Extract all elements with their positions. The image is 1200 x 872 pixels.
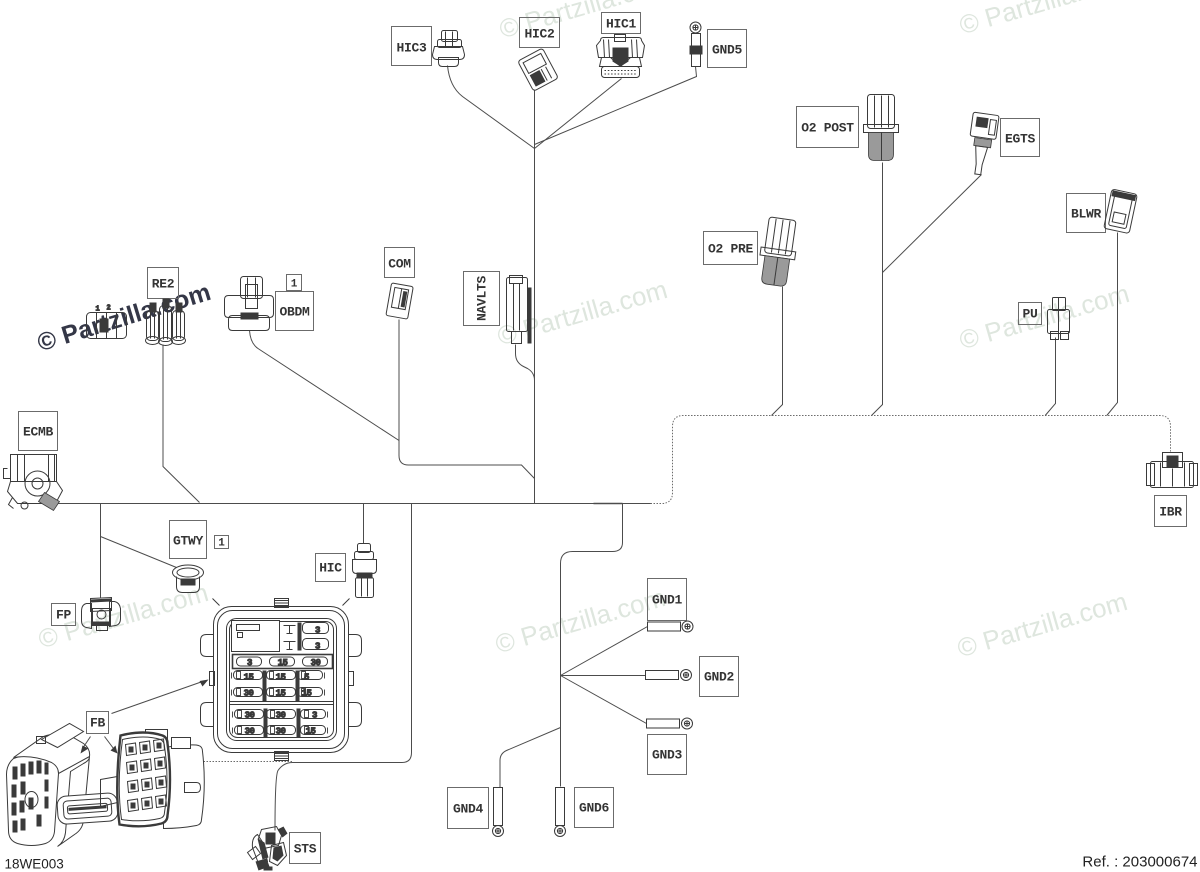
watermark right (956, 278, 1133, 355)
svg-text:OBDM: OBDM (279, 305, 310, 320)
main bus wire left (56, 503, 651, 505)
label IBR (1155, 496, 1187, 527)
watermark center (494, 274, 671, 351)
wire NAVLTS (516, 345, 535, 381)
svg-text:GND5: GND5 (712, 43, 743, 58)
wire HIC3 (448, 66, 535, 149)
watermark bottom-right (954, 586, 1131, 663)
svg-text:PU: PU (1022, 307, 1037, 322)
svg-text:15: 15 (244, 673, 254, 683)
svg-text:GND6: GND6 (579, 801, 610, 816)
watermark bottom-center (492, 582, 669, 659)
label O2 PRE (704, 232, 758, 265)
svg-text:NAVLTS: NAVLTS (475, 276, 490, 322)
label GND6 (575, 788, 614, 828)
label HIC3 (392, 27, 432, 66)
fuse cluster top right (284, 623, 329, 652)
wire COM (399, 320, 535, 479)
terminal GND5 (690, 22, 703, 67)
connector HIC2 (518, 48, 559, 91)
FB arrows (81, 680, 209, 754)
svg-text:HIC1: HIC1 (606, 17, 637, 32)
svg-text:15: 15 (276, 673, 286, 683)
svg-text:1: 1 (96, 306, 100, 314)
label ECMB (19, 412, 58, 451)
watermark top-center (496, 0, 673, 44)
wire GND2 fan (561, 675, 646, 677)
label COM (385, 248, 415, 278)
label GND2 (700, 657, 739, 697)
watermark top-right (956, 0, 1133, 40)
terminal GND6 (555, 788, 566, 837)
wire O2 POST (872, 163, 883, 416)
svg-text:GND2: GND2 (704, 670, 735, 685)
connector COM (386, 283, 413, 319)
wire HIC1 (535, 79, 622, 149)
label FB (87, 712, 109, 734)
terminal GND4 (493, 788, 504, 837)
svg-text:15: 15 (276, 689, 286, 699)
svg-text:15: 15 (302, 689, 312, 699)
FB connector left circle detail (25, 792, 38, 808)
connector O2 POST (864, 95, 899, 161)
svg-text:2: 2 (107, 305, 111, 313)
label HIC (316, 554, 346, 582)
fuse box ears (201, 599, 362, 727)
terminal GND3 (647, 718, 693, 729)
label GTWY (170, 521, 207, 559)
svg-text:30: 30 (276, 711, 286, 721)
label 1 (OBDM) (287, 275, 302, 291)
connector HIC (353, 544, 377, 598)
label HIC2 (520, 18, 560, 48)
fuse clips (232, 672, 328, 734)
fuse section 2 (230, 671, 334, 705)
svg-text:GND3: GND3 (652, 748, 683, 763)
svg-text:FB: FB (90, 716, 106, 731)
wire EGTS (883, 175, 982, 273)
svg-text:30: 30 (311, 658, 321, 668)
svg-text:1: 1 (218, 538, 225, 550)
svg-text:© Partzilla.com: © Partzilla.com (34, 278, 214, 357)
FB connector left slot grid (12, 761, 49, 833)
svg-text:3: 3 (247, 658, 252, 668)
svg-text:30: 30 (276, 727, 286, 737)
fuse band row1 (233, 655, 333, 669)
svg-text:IBR: IBR (1159, 505, 1182, 520)
fuse box top bump (275, 599, 289, 608)
connector HIC3 (433, 31, 465, 67)
svg-text:STS: STS (294, 842, 317, 857)
label RE2 (148, 268, 179, 299)
svg-text:HIC2: HIC2 (524, 27, 555, 42)
connector EGTS (965, 112, 999, 176)
svg-text:3: 3 (315, 626, 320, 636)
terminal GND1 (648, 621, 694, 632)
wire GND5 (535, 67, 697, 145)
fuse box outer (214, 607, 349, 753)
wire FB horizontal (201, 761, 293, 763)
connector OBDM (225, 277, 274, 331)
svg-text:3: 3 (312, 711, 317, 721)
watermark bottom-left (35, 577, 212, 654)
svg-text:HIC3: HIC3 (396, 41, 427, 56)
FB connector right (117, 730, 204, 829)
svg-text:15: 15 (278, 658, 288, 668)
connector ECMB (4, 455, 63, 511)
label GND4 (448, 788, 489, 829)
label STS (290, 833, 321, 864)
svg-text:GTWY: GTWY (173, 534, 204, 549)
wire GND4 branch (500, 728, 561, 788)
connector FP (82, 598, 121, 631)
connector GTWY (173, 565, 204, 593)
connector HIC1 (597, 35, 645, 78)
label GND3 (648, 735, 687, 775)
fuse section 3 (235, 709, 326, 738)
FB connector left (7, 724, 90, 847)
svg-text:RE2: RE2 (152, 277, 175, 292)
wire GTWY branch (101, 537, 177, 568)
svg-text:HIC: HIC (319, 561, 342, 576)
svg-text:© Partzilla.com: © Partzilla.com (956, 0, 1133, 40)
wire OBDM (250, 331, 400, 441)
svg-text:© Partzilla.com: © Partzilla.com (494, 274, 671, 351)
connector RE2 (146, 299, 186, 346)
label GND1 (648, 579, 687, 621)
label O2 POST (797, 107, 859, 148)
connector RE2-left with pins (87, 305, 127, 339)
label PU (1019, 303, 1042, 325)
svg-text:GND1: GND1 (652, 593, 683, 608)
wire PU (1045, 338, 1055, 416)
svg-text:COM: COM (388, 257, 411, 272)
svg-text:FP: FP (56, 608, 72, 623)
label NAVLTS (464, 272, 500, 326)
wire FP branch (100, 504, 102, 598)
wire HIC branch (363, 504, 365, 544)
svg-text:30: 30 (244, 689, 254, 699)
label GND5 (708, 30, 747, 68)
connector BLWR (1104, 189, 1138, 234)
wire GND1 fan (561, 627, 648, 676)
svg-text:ECMB: ECMB (23, 425, 54, 440)
main bus wire step and right (dashed) (651, 416, 1171, 504)
label BLWR (1067, 194, 1106, 233)
svg-text:GND4: GND4 (453, 802, 484, 817)
connector NAVLTS (507, 276, 532, 344)
wire RE2 (163, 345, 200, 503)
FB connector left latch plate (57, 793, 119, 825)
connector O2 PRE (756, 216, 800, 287)
FB connector right tunnel (101, 777, 118, 807)
wire GND3 fan (561, 676, 647, 724)
label 1 (GTWY) (215, 536, 229, 550)
svg-text:30: 30 (245, 727, 255, 737)
svg-text:1: 1 (291, 279, 298, 291)
wire HIC2 vertical trunk (534, 91, 536, 504)
wire GND trunk (561, 504, 623, 787)
svg-text:15: 15 (306, 727, 316, 737)
svg-text:30: 30 (245, 711, 255, 721)
svg-text:5: 5 (304, 673, 309, 683)
svg-text:BLWR: BLWR (1071, 207, 1102, 222)
wire O2 PRE (772, 287, 783, 416)
connector IBR (1147, 453, 1198, 488)
svg-text:18WE003: 18WE003 (5, 857, 64, 872)
label HIC1 (602, 13, 641, 34)
fuse box bottom bump (275, 752, 289, 761)
svg-text:EGTS: EGTS (1005, 132, 1036, 147)
svg-text:© Partzilla.com: © Partzilla.com (496, 0, 673, 44)
connector STS (248, 827, 288, 871)
label FP (52, 604, 76, 626)
watermark left dark (34, 278, 214, 357)
bus emphasis segment (594, 503, 623, 505)
wire STS drop (275, 504, 412, 831)
label OBDM (276, 292, 314, 331)
label EGTS (1001, 119, 1040, 157)
svg-text:© Partzilla.com: © Partzilla.com (956, 278, 1133, 355)
svg-text:Ref. : 203000674: Ref. : 203000674 (1082, 854, 1197, 871)
svg-text:O2 PRE: O2 PRE (708, 242, 754, 257)
FB connector right pin grid (126, 739, 167, 812)
terminal GND2 (646, 670, 692, 681)
fuse box relay panel (232, 621, 280, 652)
svg-text:3: 3 (315, 642, 320, 652)
connector PU (1048, 298, 1070, 340)
svg-text:© Partzilla.com: © Partzilla.com (492, 582, 669, 659)
wire BLWR (1107, 233, 1118, 416)
svg-text:© Partzilla.com: © Partzilla.com (954, 586, 1131, 663)
svg-text:O2 POST: O2 POST (801, 121, 854, 136)
